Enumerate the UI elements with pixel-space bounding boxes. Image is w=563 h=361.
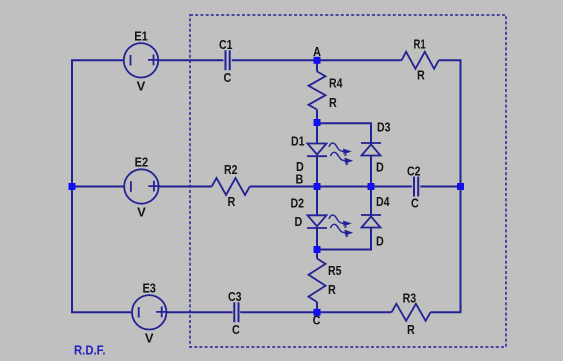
wire D2 cathode to bridge bottom junction — [316, 228, 318, 250]
svg-text:R4: R4 — [329, 76, 343, 91]
wire D4 anode to bridge bottom junction — [317, 228, 371, 250]
svg-text:R2: R2 — [224, 162, 238, 177]
svg-text:V: V — [137, 205, 146, 220]
svg-text:E1: E1 — [134, 29, 148, 44]
svg-text:D: D — [376, 160, 384, 175]
voltage source E2 — [124, 155, 159, 220]
svg-text:R.D.F.: R.D.F. — [74, 343, 106, 358]
diode D1 (LED) — [291, 134, 327, 175]
svg-text:C2: C2 — [407, 163, 421, 178]
svg-text:R: R — [407, 322, 415, 337]
svg-text:C: C — [313, 313, 321, 328]
wire R3 to node C — [240, 311, 391, 313]
wire node B through bridge to C2 — [317, 186, 412, 188]
svg-text:C1: C1 — [219, 37, 233, 52]
wire C2 to right rail — [420, 186, 460, 188]
wire bridge bottom junction to R5 — [316, 250, 318, 259]
wire D3 anode to node B row — [370, 156, 372, 187]
wire D1 cathode to node B — [316, 156, 318, 186]
svg-text:A: A — [313, 44, 321, 59]
voltage source E3 — [132, 281, 167, 346]
D2 light arrows — [329, 215, 352, 237]
wire left rail — [72, 60, 131, 312]
resistor R3 — [392, 291, 431, 338]
svg-text:D3: D3 — [377, 120, 391, 135]
junction bridge top — [314, 119, 321, 126]
node A — [313, 44, 321, 64]
svg-text:C: C — [232, 322, 240, 337]
wire node B row to D4 cathode — [370, 187, 372, 216]
capacitor C2 — [407, 163, 421, 210]
wire R4 to bridge top junction — [316, 110, 318, 123]
svg-text:R5: R5 — [328, 263, 342, 278]
diode D3 — [361, 120, 391, 175]
svg-text:D1: D1 — [291, 134, 305, 149]
diode D4 — [361, 194, 390, 249]
resistor R2 — [212, 162, 250, 209]
capacitor C3 — [228, 289, 242, 337]
wire C1 to node A — [232, 59, 402, 61]
node B — [296, 172, 321, 190]
svg-text:B: B — [296, 172, 304, 187]
svg-text:C: C — [411, 196, 419, 211]
wire R2 to node B — [250, 186, 317, 188]
svg-text:E2: E2 — [135, 155, 149, 170]
svg-text:R: R — [228, 194, 236, 209]
svg-text:R: R — [417, 68, 425, 83]
svg-text:D4: D4 — [376, 194, 390, 209]
junction left rail row B — [69, 183, 76, 190]
svg-text:D2: D2 — [291, 196, 305, 211]
wire bridge top to D3 cathode — [317, 123, 371, 143]
voltage source E1 — [124, 29, 159, 94]
diode D2 (LED) — [291, 196, 328, 230]
wire node B to D2 anode — [316, 187, 318, 216]
junction right rail row B — [457, 183, 464, 190]
wire R1 to right rail top corner — [431, 60, 461, 312]
svg-text:R: R — [329, 95, 337, 110]
wire E1 to C1 — [159, 59, 224, 61]
wire C3 to E3 — [167, 311, 233, 313]
svg-text:V: V — [145, 331, 154, 346]
dashed subcircuit box — [190, 15, 506, 347]
wire E2 to R2 — [159, 186, 212, 188]
D1 light arrows — [329, 143, 352, 165]
junction D3-D4 row B — [368, 183, 375, 190]
resistor R1 — [402, 36, 439, 82]
svg-text:D: D — [295, 214, 303, 229]
resistor R4 — [309, 72, 344, 111]
wire bridge top junction to D1 anode — [316, 123, 318, 144]
svg-text:D: D — [376, 234, 384, 249]
svg-text:R1: R1 — [414, 36, 426, 51]
capacitor C1 — [219, 37, 233, 85]
svg-text:V: V — [137, 79, 146, 94]
svg-text:R3: R3 — [403, 291, 417, 306]
svg-text:E3: E3 — [142, 281, 156, 296]
node C — [313, 309, 321, 328]
wire left rail node to E2 — [72, 186, 124, 188]
svg-text:C: C — [224, 70, 232, 85]
svg-text:C3: C3 — [228, 289, 242, 304]
svg-text:R: R — [328, 282, 336, 297]
wire node A to R4 — [316, 60, 318, 71]
resistor R5 — [309, 259, 342, 303]
junction bridge bottom — [314, 246, 321, 253]
wire R5 to node C — [316, 302, 318, 312]
